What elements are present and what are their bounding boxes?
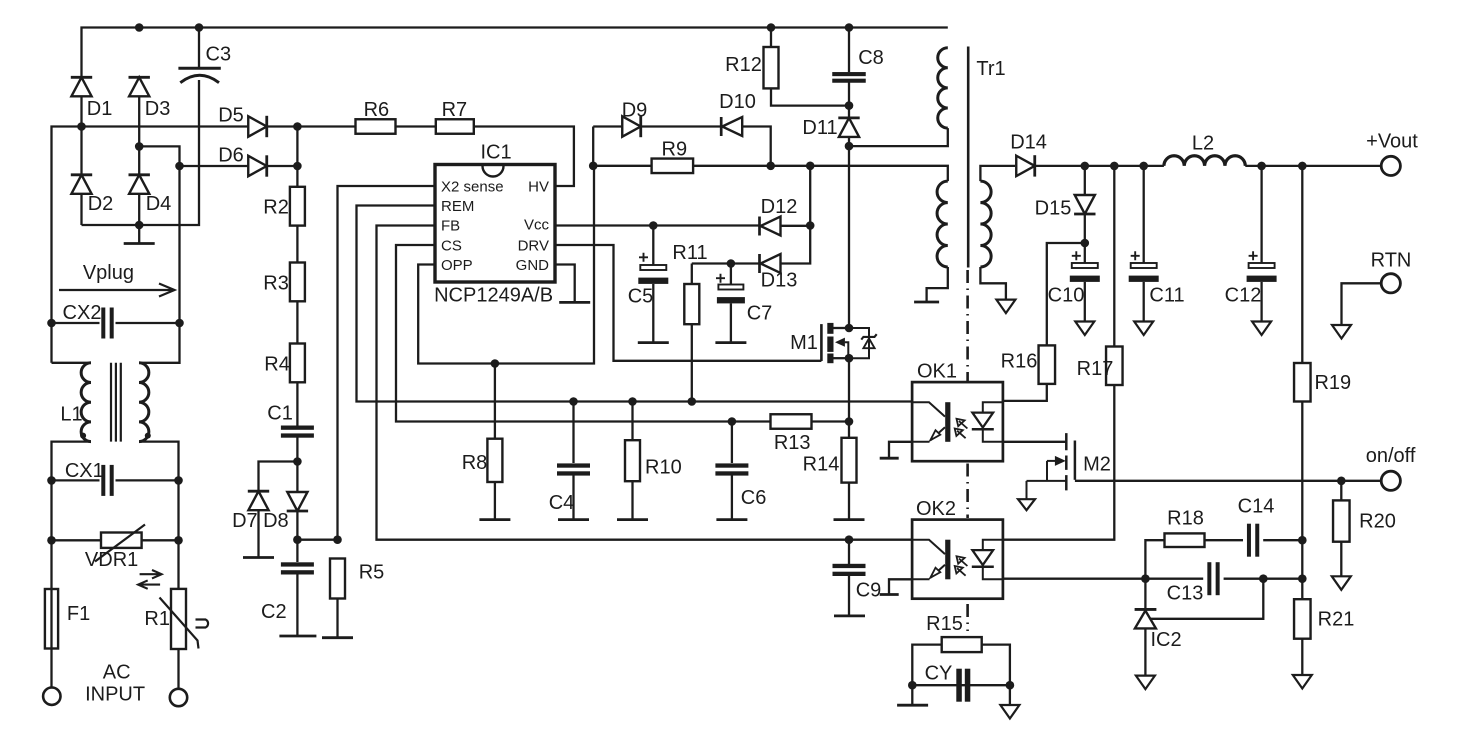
svg-text:D10: D10 — [719, 91, 756, 113]
resistor R18 — [1165, 533, 1205, 547]
junction bottom rail / ground — [135, 221, 144, 230]
junction top bus / R12 — [767, 23, 776, 32]
junction D15/C10/R16 — [1081, 239, 1090, 248]
junction D6/R2 — [293, 162, 302, 171]
wire D13 anode — [781, 166, 811, 264]
wire OK1 LED cathode to M2 gate — [1003, 441, 1066, 443]
junction R9-line/OPP vertical — [589, 162, 598, 171]
svg-text:D9: D9 — [622, 100, 648, 122]
wire D1 anode to node — [80, 96, 82, 126]
fuse F1 — [45, 589, 58, 649]
junction FB/C9 — [845, 535, 854, 544]
inductor L2 — [1164, 156, 1245, 166]
node Vplug arrow — [59, 284, 175, 297]
ground (OK2 emitter) — [880, 593, 899, 596]
resistor R13 — [771, 414, 812, 429]
wire C12 stem — [1260, 166, 1262, 263]
ground (C4) — [558, 518, 589, 521]
plus C10 — [1072, 251, 1081, 260]
junction on-off/R20 — [1337, 477, 1346, 486]
svg-text:R12: R12 — [725, 54, 762, 76]
capacitor C13 — [1207, 562, 1211, 595]
svg-text:R18: R18 — [1167, 508, 1204, 530]
core L1 line 1 — [110, 363, 112, 442]
wire C6 top — [731, 422, 733, 464]
junction C7/D13 — [727, 259, 736, 268]
junction aux vertical/R9 line — [806, 162, 815, 171]
diode D9 — [622, 116, 641, 136]
wire VDR1 to F1 — [50, 540, 52, 589]
wire D11 anode node — [848, 137, 850, 146]
junction OPP/R8 — [491, 359, 500, 368]
wire VDR1 line right — [142, 539, 179, 541]
junction D11 anode / primary bottom / M1 drain — [845, 142, 854, 151]
transistor M2 (MOSFET) — [1065, 433, 1068, 490]
svg-text:IC1: IC1 — [480, 142, 511, 164]
wire CX2 line — [52, 322, 100, 324]
svg-text:IC2: IC2 — [1150, 629, 1181, 651]
wire +Vout line left of L2 — [1035, 165, 1164, 167]
resistor R7 — [436, 119, 474, 134]
junction CX2 left — [47, 319, 56, 328]
wire R9 line right (aux winding) — [693, 166, 948, 181]
wire D12 anode — [781, 225, 811, 227]
capacitor C9 — [833, 564, 866, 568]
isolation barrier dash-dot line — [966, 270, 969, 381]
svg-text:C1: C1 — [267, 403, 293, 425]
wire L1 right bottom — [139, 442, 179, 481]
resistor R21 — [1294, 599, 1311, 639]
optocoupler OK2 phototransistor — [912, 540, 945, 554]
plus C11 — [1131, 251, 1140, 260]
junction D12 anode/aux — [806, 221, 815, 230]
diode D13 — [761, 254, 781, 273]
wire REM net — [357, 206, 913, 402]
svg-text:R9: R9 — [662, 139, 688, 161]
svg-text:+Vout: +Vout — [1366, 131, 1418, 153]
junction IC2/R18/C13 — [1141, 574, 1150, 583]
junction M1 source stub — [845, 354, 854, 363]
wire C13 left — [1145, 578, 1203, 580]
svg-text:C10: C10 — [1048, 285, 1085, 307]
wire C10 to ground — [1084, 282, 1086, 322]
wire CY right ground stem — [1009, 685, 1011, 705]
junction D3-D4 midpoint — [135, 142, 144, 151]
transformer Tr1 aux winding — [937, 181, 948, 267]
IC U2 (IC2 shunt regulator) — [1135, 611, 1156, 629]
wire CX1 line left — [52, 479, 100, 481]
wire C8 top stub — [848, 28, 850, 73]
capacitor C12 — [1249, 263, 1275, 268]
junction Vout/C12 — [1257, 162, 1266, 171]
svg-text:M2: M2 — [1083, 454, 1111, 476]
junction CX1 right — [174, 476, 183, 485]
optocoupler OK2 light arrows — [957, 556, 968, 566]
ground (R20) — [1332, 576, 1351, 590]
wire D8 cathode to C2 — [296, 511, 298, 562]
wire IC2 ref — [1145, 579, 1263, 619]
wire +Vout line right of L2 — [1245, 165, 1381, 167]
wire D10 anode down — [742, 127, 771, 166]
wire D7 branch — [259, 462, 298, 492]
wire OPP net — [418, 166, 594, 364]
wire C9 to ground — [848, 576, 850, 616]
wire CX1 line right — [116, 479, 179, 481]
svg-text:X2 sense: X2 sense — [441, 179, 504, 196]
wire R11 bottom to REM — [691, 324, 693, 401]
optocoupler OK1 phototransistor — [912, 402, 945, 416]
wire node down to R2 — [296, 127, 298, 187]
svg-text:C4: C4 — [549, 492, 575, 514]
capacitor C8 — [832, 72, 866, 76]
junction REM/R10 — [628, 397, 637, 406]
svg-text:D7: D7 — [232, 510, 258, 532]
svg-text:R2: R2 — [263, 197, 289, 219]
resistor R6 — [356, 119, 396, 134]
wire C4 top — [572, 402, 574, 464]
svg-text:R11: R11 — [672, 242, 707, 264]
svg-text:D11: D11 — [802, 117, 837, 139]
svg-text:D4: D4 — [146, 193, 172, 215]
ground (C2) — [279, 635, 316, 638]
svg-text:D12: D12 — [761, 196, 798, 218]
ground (C6) — [716, 518, 747, 521]
wire M1 source to CS node — [848, 358, 850, 421]
wire R8 to ground — [494, 482, 496, 520]
svg-text:R7: R7 — [442, 99, 468, 121]
svg-text:D2: D2 — [88, 193, 114, 215]
svg-text:R15: R15 — [926, 613, 963, 635]
junction VDR1 right — [174, 536, 183, 545]
wire CY line — [912, 684, 1010, 686]
svg-text:R14: R14 — [803, 454, 840, 476]
resistor R20 — [1333, 500, 1350, 541]
svg-text:C6: C6 — [741, 487, 767, 509]
wire C5 to ground — [652, 284, 654, 343]
junction CS/C6 — [728, 417, 737, 426]
junction Vout/R19 — [1298, 162, 1307, 171]
svg-text:C3: C3 — [206, 44, 232, 66]
wire CX1-VDR1 left — [50, 480, 52, 540]
varistor VDR1 diagonal — [95, 525, 145, 562]
wire OK2 LED cathode to IC2 — [1003, 578, 1146, 580]
svg-text:D3: D3 — [145, 98, 171, 120]
svg-text:VDR1: VDR1 — [85, 549, 138, 571]
wire L1 left bottom — [52, 442, 92, 481]
wire C2 to ground — [296, 574, 298, 636]
wire Vcc-aux line — [692, 262, 760, 264]
svg-text:R10: R10 — [645, 457, 682, 479]
transformer Tr1 secondary winding — [980, 181, 991, 267]
svg-text:R17: R17 — [1077, 358, 1114, 380]
resistor R14 — [842, 438, 857, 483]
svg-text:RTN: RTN — [1371, 250, 1412, 272]
wire FB net — [377, 226, 913, 540]
wire R16 branch — [1047, 243, 1085, 345]
wire D9 branch corner — [593, 125, 622, 127]
wire R18 left — [1145, 540, 1164, 579]
wire R20 top stub — [1340, 481, 1342, 501]
svg-text:D14: D14 — [1010, 132, 1047, 154]
wire C1 bottom — [296, 438, 298, 492]
capacitor C6 — [715, 463, 748, 467]
ground (C7) — [715, 341, 746, 344]
wire C13 right — [1224, 578, 1303, 580]
wire D3 anode down — [138, 96, 140, 146]
ground (C9) — [834, 615, 865, 618]
L1 phase dot right — [145, 433, 151, 439]
diode D7 — [248, 491, 268, 510]
wire M1 drain vertical — [848, 146, 850, 328]
wire R2-R3 — [296, 226, 298, 263]
capacitor C4 — [557, 463, 590, 467]
svg-text:R16: R16 — [1001, 351, 1038, 373]
wire CX1-VDR1 right — [177, 480, 179, 540]
svg-text:R3: R3 — [263, 273, 289, 295]
optocoupler OK1 body — [912, 382, 1003, 461]
resistor R12 — [764, 47, 779, 88]
svg-text:L1: L1 — [60, 404, 82, 426]
svg-text:C2: C2 — [261, 601, 287, 623]
wire D4 vertical — [138, 146, 140, 173]
transformer Tr1 core — [967, 47, 970, 268]
junction C13/ref — [1259, 574, 1268, 583]
wire R12 bottom to clamp node — [771, 88, 849, 105]
wire D15 top stub — [1084, 166, 1086, 195]
diode D11 (clamp) — [839, 118, 859, 137]
capacitor C7 — [718, 285, 743, 290]
svg-text:C11: C11 — [1149, 285, 1184, 307]
capacitor CX1 — [101, 465, 105, 496]
varistor VDR1 — [101, 533, 142, 548]
svg-text:L2: L2 — [1192, 133, 1214, 155]
ground (R21) — [1293, 675, 1312, 689]
fuse F1 wire through — [50, 589, 52, 649]
wire R19 down — [1301, 402, 1303, 600]
junction top bus / D3 — [135, 23, 144, 32]
wire C11 to ground — [1143, 282, 1145, 322]
svg-text:AC: AC — [103, 661, 131, 683]
resistor R3 — [290, 263, 305, 302]
junction Vout/R17 — [1110, 162, 1119, 171]
junction REM/R11 — [688, 397, 697, 406]
capacitor C3 — [178, 67, 220, 70]
resistor R2 — [290, 187, 305, 226]
ground (C12) — [1252, 322, 1271, 336]
plus C7 — [716, 274, 725, 283]
resistor R17 — [1106, 347, 1123, 386]
inductor L1 left winding — [81, 363, 91, 442]
wire R10 to ground — [631, 481, 633, 519]
ground (IC1 GND) — [559, 301, 590, 304]
junction top bus / C3 — [195, 23, 204, 32]
transformer Tr1 primary winding — [938, 48, 948, 128]
wire aux bottom to ground — [927, 267, 948, 302]
wire R19 top stub — [1301, 166, 1303, 363]
svg-text:C12: C12 — [1225, 285, 1262, 307]
wire top bus (rectified HV rail) — [82, 28, 948, 77]
ground (D7) — [243, 556, 274, 559]
wire R14 top stub — [848, 422, 850, 438]
wire IC2 top stub — [1144, 579, 1146, 610]
wire D9 vertical — [592, 127, 594, 166]
diode D10 — [722, 117, 742, 136]
wire C14 right — [1263, 539, 1302, 541]
wire D3/D4 node to D6 line — [139, 146, 179, 166]
svg-text:OK1: OK1 — [917, 361, 957, 383]
wire bridge bottom rail — [82, 86, 200, 225]
diode D5 — [248, 116, 267, 136]
junction top bus / C8 — [845, 23, 854, 32]
wire D9-D10 — [641, 125, 722, 127]
plus C5 — [639, 253, 648, 262]
svg-text:CX1: CX1 — [65, 460, 104, 482]
wire IC2 to ground — [1144, 628, 1146, 675]
junction M1 drain stub — [845, 324, 854, 333]
capacitor C10 — [1072, 263, 1098, 268]
wire R10 top — [631, 402, 633, 441]
optocoupler OK1 light arrows — [957, 419, 968, 429]
svg-text:C7: C7 — [747, 303, 773, 325]
svg-text:C8: C8 — [858, 47, 884, 69]
capacitor C5 — [640, 265, 666, 270]
svg-text:R19: R19 — [1314, 372, 1351, 394]
terminal RTN — [1381, 274, 1400, 293]
wire C12 to ground — [1260, 282, 1262, 322]
svg-text:GND: GND — [516, 257, 550, 274]
svg-text:C5: C5 — [628, 286, 654, 308]
resistor R15 — [942, 637, 982, 652]
diode D15 — [1075, 195, 1095, 214]
resistor R16 — [1039, 345, 1056, 384]
wire L1 right top — [139, 323, 180, 363]
wire D4 anode to bottom rail — [138, 194, 140, 225]
resistor R8 — [487, 439, 502, 482]
svg-text:INPUT: INPUT — [85, 684, 145, 706]
svg-text:R20: R20 — [1359, 511, 1396, 533]
junction Vout/D15 — [1081, 162, 1090, 171]
svg-text:M1: M1 — [790, 332, 818, 354]
ground (R10) — [617, 518, 648, 521]
wire C8 bottom — [848, 82, 850, 119]
IC1 notch — [483, 166, 504, 177]
svg-text:OPP: OPP — [441, 257, 473, 274]
wire X2 sense tap — [297, 539, 337, 541]
wire C11 stem — [1143, 166, 1145, 263]
junction Vout/C11 — [1139, 162, 1148, 171]
wire OK1 emitter to ground — [889, 442, 912, 458]
wire R15 left — [912, 645, 941, 686]
junction R9 line/D10 — [766, 162, 775, 171]
ground (C10) — [1075, 322, 1094, 336]
ground (RTN) — [1332, 325, 1351, 339]
plus C12 — [1249, 251, 1258, 260]
wire R14 to ground — [848, 483, 850, 520]
junction D1/D2 on node line — [77, 122, 86, 131]
wire main node to D5 — [52, 127, 249, 324]
wire CX2 left vertical — [50, 323, 52, 363]
svg-text:REM: REM — [441, 198, 474, 215]
thermistor R1 — [171, 589, 186, 649]
ground (C11) — [1134, 322, 1153, 336]
junction CX2 right — [175, 319, 184, 328]
junction CY right — [1006, 681, 1015, 690]
svg-text:R21: R21 — [1318, 609, 1355, 631]
junction CX1 left — [47, 476, 56, 485]
thermistor R1 diagonal — [160, 598, 199, 649]
wire RTN to ground — [1342, 283, 1382, 325]
wire R16 to OK1 — [1003, 384, 1047, 401]
svg-text:OK2: OK2 — [916, 498, 956, 520]
wire CS net — [396, 245, 771, 422]
ground (secondary winding) — [996, 300, 1015, 314]
wire R9 line left — [593, 165, 651, 167]
junction CS/R14/M1 source — [845, 417, 854, 426]
wire R4-C1 — [296, 382, 298, 426]
wire D7 anode to ground — [257, 510, 259, 557]
capacitor CX2 — [101, 308, 105, 339]
wire C9 stem — [848, 540, 850, 564]
ground (CY primary) — [897, 704, 928, 707]
wire D1/D2 node — [80, 127, 82, 174]
svg-text:FB: FB — [441, 218, 460, 235]
junction Vcc/C5 — [649, 221, 658, 230]
ground (M2 source) — [1018, 499, 1035, 510]
svg-text:R4: R4 — [264, 354, 290, 376]
svg-text:D1: D1 — [87, 98, 113, 120]
junction R19/C13 — [1298, 574, 1307, 583]
wire CY left ground stem — [911, 685, 913, 705]
resistor R4 — [290, 344, 305, 383]
diode D2 — [71, 175, 91, 194]
resistor R10 — [625, 440, 640, 481]
capacitor C2 — [281, 562, 314, 566]
wire C7 stem — [730, 264, 732, 286]
wire L1 left top — [52, 362, 92, 364]
wire C5 stem — [652, 226, 654, 266]
wire bridge ground stem — [138, 225, 140, 244]
wire C7 to ground — [730, 303, 732, 342]
optocoupler OK2 LED — [983, 540, 1003, 550]
ground (CY secondary) — [1000, 705, 1019, 719]
svg-text:CS: CS — [441, 237, 462, 254]
L1 phase dot left — [80, 433, 86, 439]
diode D8 — [287, 492, 307, 511]
ground (aux winding) — [914, 301, 939, 304]
svg-text:C9: C9 — [856, 580, 882, 602]
wire R8 top — [494, 364, 496, 439]
capacitor C14 — [1247, 524, 1251, 557]
diode D12 — [761, 217, 781, 236]
wire R5 to ground — [336, 599, 338, 638]
svg-text:D5: D5 — [218, 104, 244, 126]
diode D4 — [129, 175, 149, 194]
wire GND pin — [555, 265, 575, 303]
wire secondary top to D14 — [980, 166, 1015, 181]
terminal on/off — [1381, 471, 1400, 490]
capacitor C11 — [1131, 263, 1157, 268]
svg-text:CY: CY — [925, 663, 953, 685]
terminal AC left — [43, 688, 60, 705]
svg-text:R1: R1 — [144, 608, 170, 630]
wire D6 line — [180, 165, 249, 167]
wire Vcc net — [555, 224, 760, 226]
svg-text:R13: R13 — [774, 432, 811, 454]
resistor R11 — [684, 284, 699, 324]
svg-text:HV: HV — [528, 179, 549, 196]
svg-text:Vcc: Vcc — [524, 217, 550, 234]
junction VDR1 left — [47, 536, 56, 545]
